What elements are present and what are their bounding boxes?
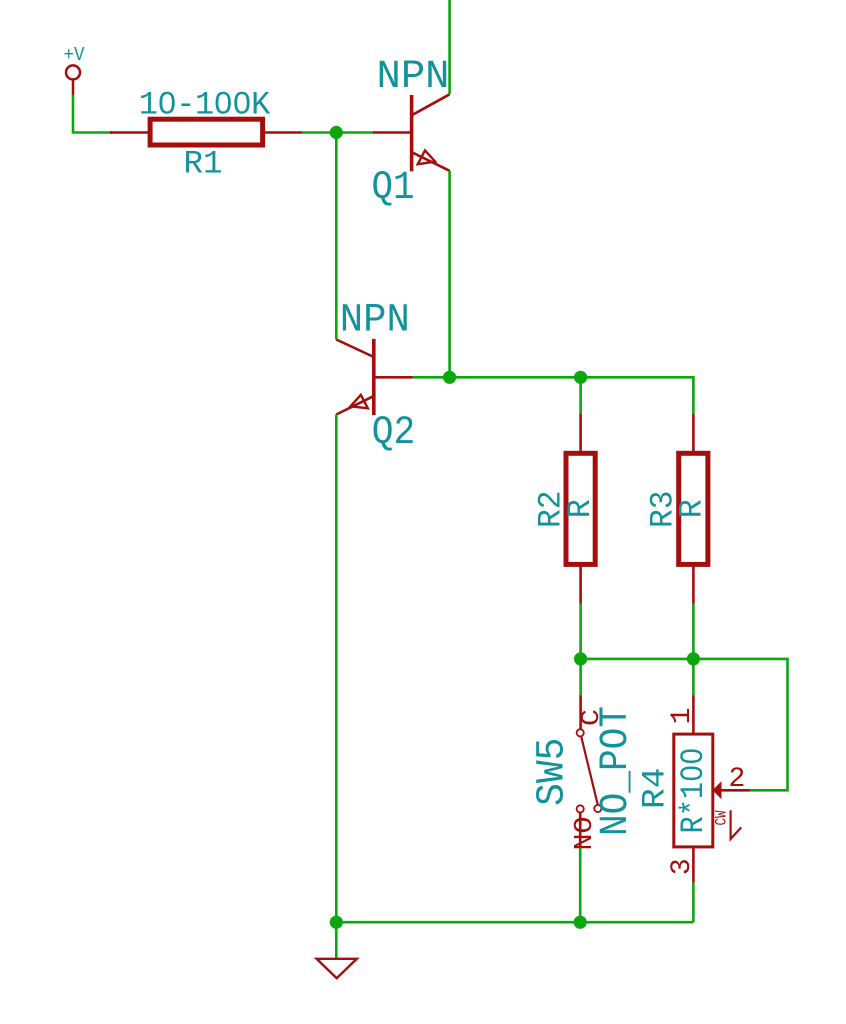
wire R2 bottom	[579, 604, 582, 659]
svg-text:Q1: Q1	[372, 165, 415, 210]
svg-text:R: R	[674, 499, 711, 518]
svg-text:NPN: NPN	[340, 298, 410, 343]
resistor R1 10-100K	[110, 86, 303, 182]
wire left column upper	[335, 133, 338, 340]
wire R2 top	[579, 377, 582, 415]
ground	[317, 922, 357, 978]
svg-text:NPN: NPN	[377, 54, 450, 99]
transistor Q2 NPN	[336, 298, 415, 455]
svg-text:+V: +V	[64, 44, 86, 66]
svg-text:R4: R4	[637, 768, 674, 810]
resistor R2	[533, 414, 599, 603]
transistor Q1 NPN	[372, 54, 450, 210]
wire bottom bus y922	[336, 921, 693, 924]
node +V terminal	[64, 44, 86, 96]
wire top collector net	[448, 0, 451, 94]
svg-text:1: 1	[667, 707, 698, 724]
junction dot E	[687, 652, 700, 665]
wire Q1 emitter down	[448, 171, 451, 377]
svg-text:SW5: SW5	[530, 738, 575, 807]
junction dot C	[574, 371, 587, 384]
junction dot B	[443, 371, 456, 384]
svg-text:2: 2	[729, 764, 746, 795]
svg-text:R*100: R*100	[675, 748, 712, 834]
junction dot A	[330, 126, 343, 139]
wire R4 pin3 bottom	[692, 883, 695, 922]
switch SW5 NO_POT	[530, 696, 638, 851]
junction dot F	[330, 916, 343, 929]
svg-text:10-100K: 10-100K	[139, 86, 271, 123]
wire middle bus y659 to wiper	[581, 659, 788, 790]
svg-text:NO_POT: NO_POT	[593, 706, 638, 836]
junction dot G	[574, 916, 587, 929]
potentiometer R4 R*100	[637, 696, 750, 883]
wire R3 top handled in bus; resistor R3	[645, 414, 711, 603]
wire R1 to Q1 base	[302, 131, 375, 134]
wire R4 pin1 top	[692, 659, 695, 696]
wire SW5 top	[579, 659, 582, 696]
wire from +V to R1	[73, 95, 112, 133]
svg-text:R: R	[562, 499, 599, 518]
wire left column lower	[335, 415, 338, 923]
junction dot D	[574, 652, 587, 665]
svg-text:3: 3	[667, 858, 698, 875]
wire SW5 bottom	[579, 848, 582, 922]
svg-text:R1: R1	[184, 145, 223, 182]
wire R3 bottom	[692, 604, 695, 659]
svg-text:CW: CW	[713, 810, 731, 825]
svg-text:Q2: Q2	[372, 410, 416, 455]
wire emitter bus y377	[413, 377, 694, 414]
